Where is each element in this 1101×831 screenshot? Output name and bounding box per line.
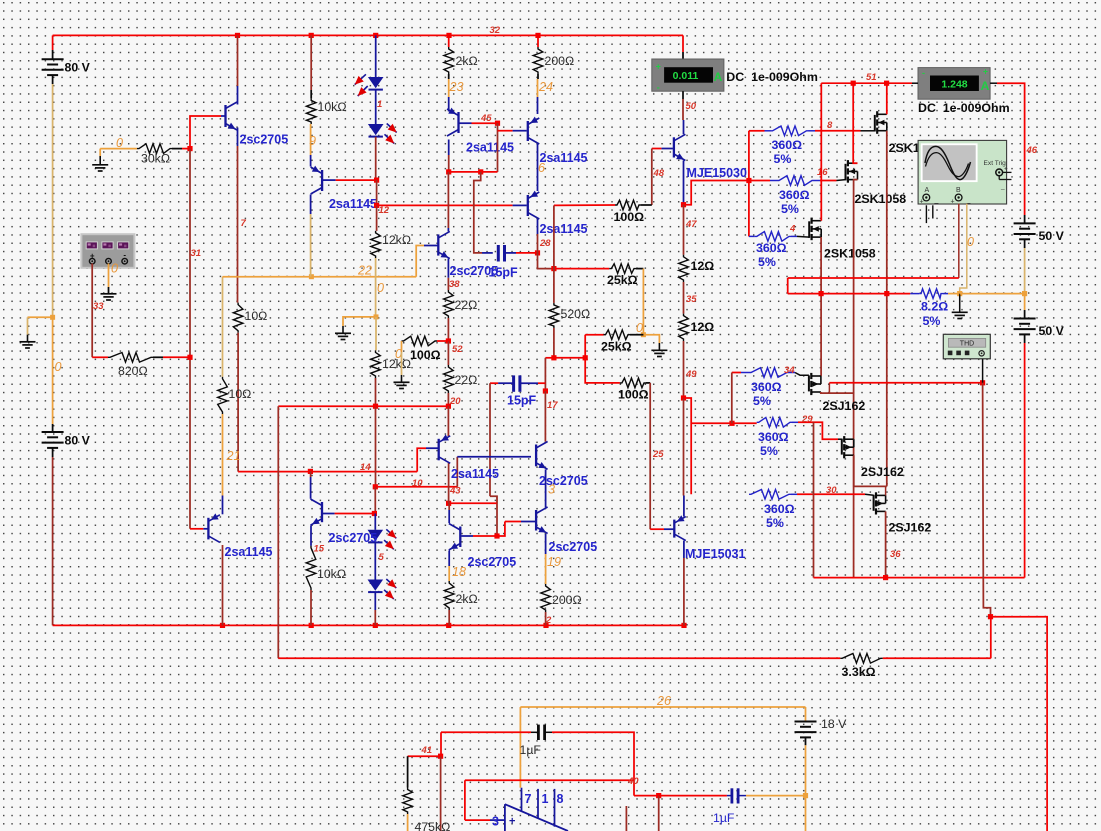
wire scope B+ down xyxy=(960,204,967,294)
wire Q2 base stub xyxy=(323,179,336,181)
transistor Q7 MJE15030 xyxy=(674,134,686,160)
battery V2 80V xyxy=(42,432,64,448)
wire Q3 emitter lead xyxy=(448,97,450,112)
junction 360 column xyxy=(746,178,751,183)
svg-text:2SJ162: 2SJ162 xyxy=(861,465,904,479)
wire ground lead xyxy=(99,156,101,165)
junction supply midpoint xyxy=(1022,291,1027,296)
junction output ground xyxy=(957,291,962,296)
instrument XMM1 multimeter xyxy=(81,234,134,268)
instrument U1 ammeter 0.011 xyxy=(652,59,724,93)
resistor 200Ohm lower xyxy=(541,584,551,612)
MOSFET Q18 2SJ162 xyxy=(809,373,821,395)
junction xyxy=(478,169,483,174)
svg-text:46: 46 xyxy=(1026,145,1038,156)
svg-text:19: 19 xyxy=(547,555,561,569)
wire battery lead xyxy=(805,737,807,745)
junction net 22 xyxy=(309,274,314,279)
resistor 22Ohm upper xyxy=(444,290,454,318)
svg-text:3: 3 xyxy=(548,483,555,497)
wire battery V1 bottom lead xyxy=(52,75,54,84)
wire to left ground xyxy=(28,316,53,318)
wire to ground xyxy=(643,335,659,343)
wire battery V1 top lead xyxy=(52,35,54,50)
svg-text:29: 29 xyxy=(801,414,813,425)
wire Q9 base to LED column xyxy=(335,513,375,515)
capacitor C1 15pF xyxy=(498,245,504,262)
wire net 20 to 3.3k xyxy=(278,657,840,659)
wire 25k lower left xyxy=(585,334,603,336)
resistor 2kOhm lower xyxy=(444,581,454,610)
svg-text:24: 24 xyxy=(538,80,553,94)
wire ground lead xyxy=(401,375,403,382)
wire stub xyxy=(741,372,749,374)
wire battery lead xyxy=(1024,310,1026,319)
junction net 40 xyxy=(656,793,661,798)
svg-text:5%: 5% xyxy=(753,394,771,408)
MOSFET Q17 2SK1058 xyxy=(809,218,821,241)
junction net 12a xyxy=(374,178,379,183)
junction net 49 xyxy=(681,395,686,400)
transistor Q13 2sc2705 xyxy=(449,524,461,551)
wire ground lead xyxy=(342,326,344,333)
wire Q7 emitter to 360 row2 xyxy=(684,181,749,205)
wire stub xyxy=(789,372,795,374)
junction y407 right xyxy=(446,404,451,409)
wire net 48 xyxy=(651,149,653,206)
svg-text:0: 0 xyxy=(55,360,62,374)
svg-text:0: 0 xyxy=(111,262,118,276)
svg-text:30: 30 xyxy=(826,485,837,496)
svg-text:2SJ162: 2SJ162 xyxy=(823,399,866,413)
wire net 43 vertical xyxy=(456,457,458,487)
wire rail to 2k xyxy=(448,35,450,47)
junction C1 xyxy=(535,250,540,255)
wire net 49 xyxy=(683,341,685,398)
svg-text:+: + xyxy=(920,199,924,206)
wire Q8 emitter lead xyxy=(222,496,224,515)
wire C2 right stub xyxy=(520,382,538,384)
transistor Q6 2sc2705 xyxy=(438,231,450,258)
wire C4 stub right xyxy=(738,795,746,797)
wire net 0 to R 30k xyxy=(100,148,137,150)
wire op-amp output stub xyxy=(625,806,627,831)
junction on top rail xyxy=(309,33,314,38)
svg-text:-: - xyxy=(922,68,925,78)
transistor Q2 2sa1145 xyxy=(311,166,323,194)
junction Q13 base xyxy=(494,533,499,538)
wire LED4 to rail xyxy=(374,610,376,625)
wire ammeter bottom lead xyxy=(682,91,684,99)
svg-text:+: + xyxy=(509,816,515,828)
junction net 12 xyxy=(374,203,379,208)
wire down to junction xyxy=(553,205,555,268)
svg-text:80 V: 80 V xyxy=(65,61,91,75)
wire resistor lead xyxy=(636,268,643,270)
wire row 29 left xyxy=(691,422,732,424)
wire Q4 collector to Q5 emitter xyxy=(537,144,539,191)
wire 475k bottom xyxy=(407,814,409,831)
battery V1 80V xyxy=(42,59,64,75)
wire 360#4 left xyxy=(732,372,741,374)
instrument XDA1 THD meter xyxy=(943,334,990,359)
wire to 475k xyxy=(440,732,442,756)
wire 3.3k right xyxy=(883,657,991,659)
svg-text:MJE15030: MJE15030 xyxy=(687,166,748,180)
resistor R 360 #1 xyxy=(771,126,809,136)
svg-text:33: 33 xyxy=(93,301,104,312)
battery V3 50V xyxy=(1014,223,1036,239)
wire 8.2 stub xyxy=(910,293,919,295)
svg-text:2sc2705: 2sc2705 xyxy=(240,133,289,147)
wire junction row xyxy=(554,357,585,359)
wire to battery V5 xyxy=(805,707,807,722)
wire resistor lead xyxy=(448,74,450,79)
svg-text:9: 9 xyxy=(309,134,316,148)
capacitor C4 1uF xyxy=(732,788,738,803)
ground 100Ω xyxy=(394,382,410,388)
wire down to 3.3k row xyxy=(990,617,992,659)
svg-text:B: B xyxy=(956,187,961,194)
svg-text:8: 8 xyxy=(827,120,833,131)
svg-text:2sa1145: 2sa1145 xyxy=(540,151,588,165)
wire Q13 base stub xyxy=(461,535,473,537)
wire to net 28 row xyxy=(538,253,554,269)
junction net 45 xyxy=(495,121,500,126)
resistor 3.3kOhm xyxy=(840,654,883,664)
junction net 47 xyxy=(681,202,686,207)
LED D1 xyxy=(355,74,384,96)
svg-text:10kΩ: 10kΩ xyxy=(317,567,346,581)
svg-text:30kΩ: 30kΩ xyxy=(141,152,170,166)
wire 51 to Q17 drain xyxy=(820,83,822,221)
wire LED3 to LED4 xyxy=(374,543,376,580)
svg-text:22Ω: 22Ω xyxy=(455,298,478,312)
svg-text:360Ω: 360Ω xyxy=(751,380,782,394)
wire 51 to Q15 drain xyxy=(886,83,888,114)
wire net 30 to gate xyxy=(797,493,865,495)
wire C2 right xyxy=(538,382,545,384)
wire battery V1 lead xyxy=(52,50,54,59)
wire Q5 base stub xyxy=(513,204,527,206)
MOSFET Q15 2SK1058 xyxy=(875,111,887,134)
svg-text:45: 45 xyxy=(480,113,492,124)
wire Q6 base stub xyxy=(424,245,438,247)
svg-text:MJE15031: MJE15031 xyxy=(685,547,746,561)
wire resistor lead xyxy=(537,74,539,79)
wire to 12k lower xyxy=(375,317,377,351)
svg-text:8.2Ω: 8.2Ω xyxy=(921,300,948,314)
svg-text:2SJ162: 2SJ162 xyxy=(889,521,932,535)
wire Q6 emitter lead xyxy=(447,259,449,278)
wire to op-amp + xyxy=(464,780,466,820)
svg-text:DC 1e-009Ohm: DC 1e-009Ohm xyxy=(918,101,1010,115)
svg-text:51: 51 xyxy=(866,72,877,83)
junction on top rail xyxy=(535,33,540,38)
junction net 15 xyxy=(372,511,377,516)
junction net 10 xyxy=(373,484,378,489)
transistor Q12 2sc2705 xyxy=(536,507,548,534)
wire net 9 xyxy=(310,124,312,155)
LED D2 xyxy=(368,124,397,144)
svg-text:12kΩ: 12kΩ xyxy=(382,233,411,247)
wire to junction xyxy=(634,795,659,797)
wire C3 right to net 40 xyxy=(552,732,634,795)
wire Q5 collector down xyxy=(537,234,539,253)
resistor 12Ohm upper xyxy=(679,255,689,282)
svg-text:3.3kΩ: 3.3kΩ xyxy=(842,665,876,679)
wire battery lead xyxy=(1024,215,1026,223)
wire ground lead xyxy=(27,335,29,342)
svg-text:52: 52 xyxy=(452,344,463,355)
svg-text:28: 28 xyxy=(539,238,551,249)
svg-text:8: 8 xyxy=(557,792,564,806)
wire Q1 base stub xyxy=(221,115,226,117)
wire net 8 to gate xyxy=(815,130,861,132)
wire stub xyxy=(770,180,777,182)
svg-text:2sc2705: 2sc2705 xyxy=(329,531,378,545)
wire gate lead Q17 xyxy=(797,235,809,238)
wire 360#2 left xyxy=(749,180,770,182)
wire output to THD xyxy=(829,382,982,384)
junction on bottom rail xyxy=(373,623,378,628)
wire ground lead xyxy=(658,343,660,350)
wire net 43 row xyxy=(449,502,497,504)
wire 2k to rail xyxy=(448,610,450,625)
wire Q18 source jog xyxy=(821,392,854,393)
wire Q14 collector lead xyxy=(683,496,685,517)
svg-text:3: 3 xyxy=(492,815,499,829)
svg-text:2SK1: 2SK1 xyxy=(889,141,920,155)
wire resistor lead xyxy=(153,356,163,358)
wire net 45 down xyxy=(497,123,499,172)
wire 12k to jog xyxy=(375,258,377,317)
resistor 12kOhm upper xyxy=(371,231,381,258)
svg-text:50 V: 50 V xyxy=(1039,324,1065,338)
wire to junction xyxy=(182,148,190,150)
svg-text:32: 32 xyxy=(490,25,501,36)
wire C4 stub xyxy=(727,795,732,797)
wire to bottom right xyxy=(991,617,1048,831)
svg-text:+: + xyxy=(983,67,988,77)
wire net 29 to gate xyxy=(798,422,838,439)
junction 520/25k xyxy=(551,266,556,271)
wire net 14 horizontal xyxy=(238,471,417,473)
junction net 11 xyxy=(988,614,993,619)
wire rail to 200 xyxy=(537,35,539,47)
wire Q7 base stub xyxy=(661,148,673,150)
junction on top rail xyxy=(446,33,451,38)
svg-text:47: 47 xyxy=(685,219,697,230)
junction output 2 xyxy=(819,291,824,296)
wire 22 to y407 xyxy=(447,393,449,406)
wire battery V2 top lead xyxy=(52,424,54,432)
wire to 100 third xyxy=(585,358,620,383)
svg-text:THD: THD xyxy=(960,341,974,348)
svg-text:2kΩ: 2kΩ xyxy=(456,54,478,68)
resistor 10kOhm lower xyxy=(306,546,316,590)
wire Q12 emitter lead xyxy=(545,534,547,554)
wire 360#1 stub xyxy=(765,130,771,132)
junction net 17 row xyxy=(583,355,588,360)
junction 475k xyxy=(438,754,443,759)
wire rail to LED1 xyxy=(375,35,377,77)
wire 100 to junction 52 xyxy=(437,340,448,342)
resistor 475kOhm xyxy=(403,788,413,815)
junction on bottom rail xyxy=(543,623,548,628)
wire net 22 xyxy=(223,276,417,278)
wire 360#4 to row29 xyxy=(731,373,733,424)
wire net 41 xyxy=(408,755,441,757)
wire Q19 source jog xyxy=(854,455,887,486)
transistor Q9 2sc2705 xyxy=(311,499,323,525)
wire 475k top lead xyxy=(407,756,409,787)
svg-text:31: 31 xyxy=(191,248,202,259)
wire resistor lead xyxy=(646,382,650,384)
junction 25k ground xyxy=(641,332,646,337)
svg-text:80 V: 80 V xyxy=(65,433,91,447)
wire Q7 collector lead xyxy=(683,120,685,134)
wire op-amp + input xyxy=(465,819,490,821)
resistor 10Ohm upper xyxy=(233,303,243,333)
transistor Q5 2sa1145 xyxy=(528,191,540,219)
wire node 45 bottom xyxy=(449,171,498,173)
junction on top rail xyxy=(373,33,378,38)
wire rail to ammeter U1 xyxy=(682,35,684,52)
wire Q12 base xyxy=(505,521,521,523)
wire bottom rail net 2 xyxy=(53,624,684,626)
wire Q9 collector lead xyxy=(310,477,312,499)
wire net 16 to gate xyxy=(820,180,837,182)
svg-text:23: 23 xyxy=(449,80,464,94)
svg-text:2sa1145: 2sa1145 xyxy=(540,222,588,236)
svg-text:2: 2 xyxy=(545,615,552,626)
svg-text:5%: 5% xyxy=(758,255,776,269)
junction output xyxy=(884,291,889,296)
svg-text:41: 41 xyxy=(421,745,433,756)
wire battery lead xyxy=(1024,239,1026,248)
svg-text:10Ω: 10Ω xyxy=(229,387,252,401)
wire XMM+ net 33 xyxy=(91,264,93,358)
wire C3 stub xyxy=(531,731,538,733)
wire stub xyxy=(749,235,755,237)
wire to 12 upper xyxy=(683,205,685,255)
svg-text:48: 48 xyxy=(653,168,665,179)
svg-text:10Ω: 10Ω xyxy=(245,309,268,323)
wire net 23 xyxy=(448,79,450,97)
svg-text:_: _ xyxy=(934,197,939,204)
wire stub xyxy=(496,496,498,503)
svg-text:1µF: 1µF xyxy=(713,811,735,825)
wire Q11 base blue xyxy=(457,456,531,458)
junction bottom rail xyxy=(883,575,888,580)
wire net 20 long vertical xyxy=(277,406,279,658)
wire net 12 right to 100 xyxy=(554,204,615,206)
wire between 22s xyxy=(447,341,449,365)
wire op-amp + stub xyxy=(490,819,505,821)
wire gate lead Q15 xyxy=(861,130,875,132)
wire net 49 jog down xyxy=(684,398,692,494)
svg-text:_: _ xyxy=(966,197,971,204)
LED D3 xyxy=(368,529,397,549)
wire Q5 collector lead xyxy=(537,219,539,234)
svg-text:18 V: 18 V xyxy=(821,717,847,731)
wire net 0 to supply midpoint xyxy=(960,293,1025,295)
wire Q13 base xyxy=(473,535,497,537)
svg-text:2sa1145: 2sa1145 xyxy=(225,545,273,559)
junction row 29 xyxy=(729,421,734,426)
wire net 7 xyxy=(237,146,239,303)
wire pin 8 xyxy=(554,789,556,827)
svg-text:7: 7 xyxy=(525,792,532,806)
wire to LED3 xyxy=(374,514,376,530)
wire 360#1 left xyxy=(749,130,765,132)
wire 22 to junction 52 xyxy=(447,318,449,341)
svg-text:360Ω: 360Ω xyxy=(758,430,789,444)
wire Q7 emitter lead xyxy=(683,161,685,205)
LED D4 xyxy=(368,579,397,599)
svg-text:0: 0 xyxy=(967,235,974,249)
svg-text:1: 1 xyxy=(377,99,382,110)
wire scope A- stub xyxy=(932,205,934,218)
junction on bottom rail xyxy=(220,623,225,628)
wire scope A+ stub xyxy=(925,205,927,223)
wire net 0 25k xyxy=(642,269,644,335)
capacitor C2 15pF xyxy=(514,375,520,391)
wire net 26 xyxy=(520,706,805,708)
svg-text:15: 15 xyxy=(314,544,325,555)
svg-text:475kΩ: 475kΩ xyxy=(415,820,451,831)
wire Q2 collector to net 22 xyxy=(310,214,312,277)
svg-text:2SK1058: 2SK1058 xyxy=(824,247,876,261)
svg-text:2sa1145: 2sa1145 xyxy=(451,467,499,481)
wire row left end xyxy=(545,357,554,359)
wire net 17 vertical xyxy=(544,358,546,391)
resistor R 360 #6 xyxy=(749,490,791,500)
svg-text:43: 43 xyxy=(449,486,461,497)
resistor 100Ohm first xyxy=(402,336,438,346)
wire resistor lead xyxy=(641,204,652,206)
svg-text:0: 0 xyxy=(116,136,123,150)
wire Q6 collector lead xyxy=(447,228,449,231)
wire Q15 source down xyxy=(886,131,888,487)
wire net 12 to Q5 base xyxy=(377,204,513,206)
junction on top rail xyxy=(235,33,240,38)
wire Q14 emitter to rail xyxy=(683,558,685,625)
wire battery V2 to rail xyxy=(52,457,54,625)
wire net 22 left vertical xyxy=(222,277,224,377)
svg-text:26: 26 xyxy=(656,694,671,708)
svg-text:18: 18 xyxy=(452,565,466,579)
wire output row upper xyxy=(788,277,959,279)
wire Q14 emitter lead xyxy=(683,541,685,558)
svg-text:A: A xyxy=(925,187,930,194)
wire Q17 source to Q18 drain xyxy=(820,237,822,376)
resistor 12Ohm lower xyxy=(679,314,689,341)
wire Q19 drain stub xyxy=(853,438,855,440)
wire Q9 emitter lead xyxy=(310,526,312,546)
MOSFET Q16 2SK1058 xyxy=(846,160,858,183)
junction on bottom rail xyxy=(681,623,686,628)
wire Q10 base stub xyxy=(426,447,439,449)
junction net 14 xyxy=(308,469,313,474)
resistor R 360 #2 xyxy=(777,176,814,186)
wire net 40 xyxy=(465,779,634,781)
svg-text:100Ω: 100Ω xyxy=(614,210,645,224)
wire 17 to Q11 collector xyxy=(544,391,546,441)
capacitor C3 1uF xyxy=(538,725,544,740)
wire 100 to ground xyxy=(401,341,403,352)
